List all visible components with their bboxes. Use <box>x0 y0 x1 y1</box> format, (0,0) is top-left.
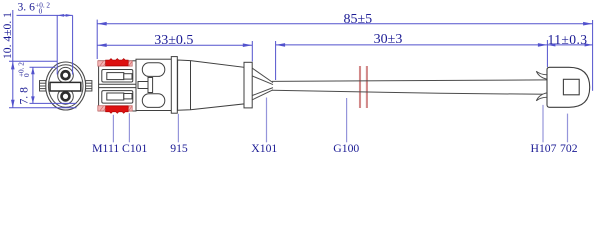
svg-text:M111: M111 <box>92 142 119 155</box>
svg-text:7. 8: 7. 8 <box>18 87 31 105</box>
svg-text:10. 4±0. 1: 10. 4±0. 1 <box>1 12 14 59</box>
svg-text:33±0.5: 33±0.5 <box>154 33 193 48</box>
svg-text:+0. 2: +0. 2 <box>35 2 50 10</box>
svg-text:11±0.3: 11±0.3 <box>548 32 588 47</box>
svg-text:C101: C101 <box>122 142 147 155</box>
svg-text:3. 6: 3. 6 <box>18 1 36 14</box>
svg-text:0: 0 <box>39 8 43 16</box>
svg-text:0: 0 <box>23 73 31 77</box>
svg-text:30±3: 30±3 <box>374 32 403 47</box>
svg-text:915: 915 <box>170 142 188 155</box>
svg-text:G100: G100 <box>333 142 359 155</box>
svg-text:H107: H107 <box>531 142 557 155</box>
svg-text:X101: X101 <box>251 142 277 155</box>
svg-text:85±5: 85±5 <box>343 12 372 27</box>
svg-text:702: 702 <box>560 142 578 155</box>
